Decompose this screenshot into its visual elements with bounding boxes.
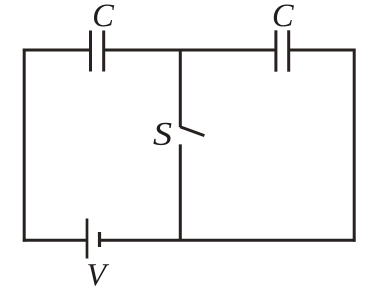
wire middle upper segment — [179, 50, 182, 127]
capacitor C2 left plate — [274, 30, 277, 71]
label C (left capacitor) — [94, 5, 114, 27]
wire top-middle segment — [104, 49, 276, 52]
switch S blade — [180, 127, 204, 136]
label C (right capacitor) — [274, 5, 294, 27]
battery V short plate — [98, 232, 101, 247]
wire bottom-right segment — [100, 239, 356, 242]
label V (battery) — [88, 264, 109, 286]
wire right side — [353, 49, 356, 242]
wire left side — [23, 49, 26, 242]
label S (switch) — [153, 123, 171, 145]
capacitor C1 left plate — [89, 31, 92, 72]
capacitor C1 right plate — [102, 31, 105, 72]
capacitor C2 right plate — [287, 30, 290, 71]
wire middle lower segment — [179, 144, 182, 240]
wire top-right segment — [289, 49, 356, 52]
wire top-left segment — [23, 49, 91, 52]
battery V long plate — [86, 219, 89, 259]
wire bottom-left segment — [23, 239, 87, 242]
